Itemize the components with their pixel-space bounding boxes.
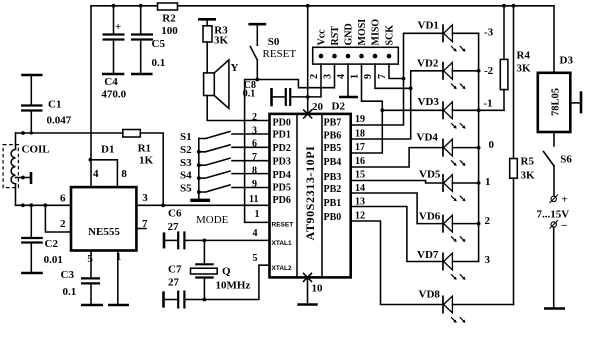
svg-text:5: 5 xyxy=(253,253,258,264)
svg-text:17: 17 xyxy=(355,142,365,153)
wire node A horizontal (coil top / C1 / R1) xyxy=(16,132,123,134)
switch S5 xyxy=(180,183,270,195)
battery minus terminal xyxy=(550,219,568,231)
wire regulator to S6 xyxy=(553,132,555,146)
svg-text:3K: 3K xyxy=(517,63,532,75)
wire reset net: S0 / ISP RST / MCU pin1 xyxy=(245,64,335,222)
svg-text:MISO: MISO xyxy=(371,19,382,46)
speaker Y xyxy=(204,60,239,109)
connector pin contacts xyxy=(319,54,392,59)
svg-text:1K: 1K xyxy=(139,154,154,166)
svg-text:C3: C3 xyxy=(61,269,75,281)
pin 10 marker X and ground xyxy=(297,273,323,304)
wire VD6 anode to chain xyxy=(452,223,478,225)
wire ISP MISO pin 9 to PB6/VD2 net xyxy=(375,64,411,88)
power terminal above S0 xyxy=(248,23,266,26)
svg-text:VD8: VD8 xyxy=(419,289,441,301)
svg-text:4: 4 xyxy=(253,228,258,239)
LED VD3 xyxy=(418,96,466,129)
svg-text:S0: S0 xyxy=(268,36,280,48)
svg-text:R2: R2 xyxy=(162,13,176,25)
svg-text:AT90S2313-10PI: AT90S2313-10PI xyxy=(303,146,317,241)
svg-text:MODE: MODE xyxy=(196,214,229,226)
svg-text:S5: S5 xyxy=(180,183,192,195)
wire crystal/C7 to XTAL2 MCU pin 5 xyxy=(204,265,269,299)
svg-text:VD4: VD4 xyxy=(417,132,439,144)
svg-text:1: 1 xyxy=(350,74,361,79)
wire VD1 anode to chain xyxy=(452,32,478,34)
svg-text:C5: C5 xyxy=(152,38,166,50)
svg-text:10: 10 xyxy=(312,283,324,295)
svg-text:16: 16 xyxy=(355,156,365,167)
svg-text:S4: S4 xyxy=(180,170,192,182)
svg-text:-3: -3 xyxy=(484,27,494,39)
svg-text:12: 12 xyxy=(355,210,365,221)
wire VD8 anode to R5 xyxy=(452,304,513,306)
svg-text:C7: C7 xyxy=(168,264,182,276)
resistor R2 xyxy=(158,3,179,37)
svg-text:PD3: PD3 xyxy=(273,156,291,167)
resistor R3 3K xyxy=(203,19,229,73)
svg-text:PD6: PD6 xyxy=(273,195,291,206)
wire PB4 pin 16 to VD4 xyxy=(351,148,443,167)
switch S4 xyxy=(180,170,270,182)
svg-text:3: 3 xyxy=(142,192,148,204)
svg-text:-1: -1 xyxy=(484,98,493,110)
svg-text:3: 3 xyxy=(252,125,257,136)
capacitor C1 0.047 with top terminal xyxy=(21,75,72,133)
wire top supply rail xyxy=(91,5,554,7)
svg-text:2: 2 xyxy=(252,112,257,123)
svg-text:78L05: 78L05 xyxy=(551,88,562,116)
ground ISP GND pin 4 xyxy=(339,64,358,97)
timer U1 NE555 xyxy=(71,187,136,250)
node junction crystal/C7 xyxy=(203,298,207,302)
wire PB1 pin 13 to VD7 xyxy=(351,207,443,262)
svg-text:0.1: 0.1 xyxy=(63,286,77,298)
coil tap terminal xyxy=(16,172,32,184)
svg-text:R5: R5 xyxy=(521,156,535,168)
node junction crystal/C6/XTAL1 xyxy=(203,239,207,243)
svg-text:+: + xyxy=(115,21,121,33)
svg-text:PD4: PD4 xyxy=(273,170,291,181)
svg-text:C4: C4 xyxy=(104,76,118,88)
wire rail to regulator D3 xyxy=(553,6,555,73)
svg-text:6: 6 xyxy=(252,139,257,150)
svg-text:0.01: 0.01 xyxy=(44,254,63,266)
svg-text:0.1: 0.1 xyxy=(152,57,166,69)
svg-text:PB7: PB7 xyxy=(324,117,342,128)
svg-text:D2: D2 xyxy=(332,101,346,113)
svg-text:GND: GND xyxy=(344,23,355,45)
svg-text:11: 11 xyxy=(249,194,258,205)
ground tab of 78L05 xyxy=(570,91,581,113)
svg-text:1: 1 xyxy=(485,176,491,188)
capacitor C4 470.0 xyxy=(101,6,126,101)
svg-text:VD7: VD7 xyxy=(417,249,439,261)
svg-text:D3: D3 xyxy=(560,55,574,67)
svg-text:18: 18 xyxy=(355,128,365,139)
svg-text:Vcc: Vcc xyxy=(317,29,328,46)
svg-text:PB0: PB0 xyxy=(324,212,342,223)
node junction R5 on rail xyxy=(512,4,516,8)
svg-text:VD5: VD5 xyxy=(419,169,441,181)
svg-text:2: 2 xyxy=(60,218,66,230)
resistor R1 1K xyxy=(123,130,163,206)
svg-text:VD6: VD6 xyxy=(419,211,441,223)
svg-text:D1: D1 xyxy=(101,143,114,155)
svg-text:9: 9 xyxy=(363,74,374,79)
wire speaker to MCU pin 2 (PD0) xyxy=(207,96,269,121)
svg-text:MOSI: MOSI xyxy=(357,19,368,46)
svg-text:8: 8 xyxy=(252,165,257,176)
node junction C8/Vcc xyxy=(306,95,310,99)
svg-text:0: 0 xyxy=(489,139,495,151)
wire NE555 pin 2 branch xyxy=(45,205,71,232)
svg-text:XTAL2: XTAL2 xyxy=(272,265,292,272)
svg-text:20: 20 xyxy=(312,101,324,113)
node dot C1 junction xyxy=(30,131,33,134)
node junction C4 on rail xyxy=(112,4,116,8)
pin 20 marker X xyxy=(304,101,324,118)
switch S3 xyxy=(180,157,270,169)
svg-text:7: 7 xyxy=(377,74,388,79)
crystal Q 10MHz xyxy=(191,240,251,299)
wire pins 4 and 8 jumper of NE555 xyxy=(89,158,128,187)
wire PB2 pin 14 to VD6 xyxy=(351,193,443,224)
resistor R4 3K xyxy=(500,6,531,111)
capacitor C5 0.1 xyxy=(131,6,165,74)
svg-text:470.0: 470.0 xyxy=(101,89,126,101)
svg-text:RESET: RESET xyxy=(272,222,294,229)
svg-text:6: 6 xyxy=(60,192,66,204)
svg-text:+: + xyxy=(562,194,568,206)
svg-text:PD1: PD1 xyxy=(273,129,291,140)
svg-text:7: 7 xyxy=(252,152,257,163)
LED VD7 xyxy=(417,249,466,280)
capacitor C3 0.1 on NE555 pin 5 xyxy=(61,251,104,306)
svg-text:8: 8 xyxy=(121,168,127,180)
svg-text:27: 27 xyxy=(168,277,180,289)
svg-text:PD0: PD0 xyxy=(273,117,291,128)
svg-text:SCK: SCK xyxy=(385,25,396,46)
ground NE555 pin 1 xyxy=(108,251,129,306)
wire ISP MOSI pin 1 to PB5/VD3 net xyxy=(362,64,383,110)
LED VD5 xyxy=(419,169,466,202)
wire node B horizontal (coil bottom / pin6 of NE555) xyxy=(16,204,72,206)
svg-text:PB3: PB3 xyxy=(324,172,342,183)
wire left supply vertical to NE555 pins 4/8 xyxy=(90,6,92,187)
svg-text:PD2: PD2 xyxy=(273,143,291,154)
svg-text:RESET: RESET xyxy=(263,48,297,60)
ground terminal for C7 xyxy=(162,291,165,307)
svg-text:-2: -2 xyxy=(484,65,494,77)
svg-text:Q: Q xyxy=(222,265,231,277)
MCU U2 AT90S2313-10PI xyxy=(270,114,351,278)
svg-text:27: 27 xyxy=(168,221,180,233)
node dot on wire A xyxy=(21,131,25,135)
capacitor C2 0.01 xyxy=(21,205,63,273)
node junction R4 on rail xyxy=(502,4,506,8)
svg-text:0.1: 0.1 xyxy=(243,89,256,100)
svg-text:15: 15 xyxy=(355,170,365,181)
svg-text:–: – xyxy=(561,219,568,231)
svg-text:100: 100 xyxy=(161,25,178,37)
svg-text:NE555: NE555 xyxy=(88,226,120,238)
svg-text:2: 2 xyxy=(485,215,491,227)
battery plus terminal xyxy=(550,194,568,206)
ground terminal for C6 xyxy=(163,232,166,248)
wire XTAL1 to MCU pin 4 xyxy=(204,239,269,241)
wire Vcc vertical from rail to MCU pin 20 xyxy=(306,4,310,114)
svg-text:3: 3 xyxy=(485,254,491,266)
wire PB7 pin 19 to VD1 / SCK xyxy=(351,33,443,125)
svg-text:4: 4 xyxy=(93,168,99,180)
svg-text:9: 9 xyxy=(252,179,257,190)
svg-text:VD3: VD3 xyxy=(418,96,440,108)
wire VD2 anode to chain xyxy=(452,70,478,72)
node dots on wire B xyxy=(21,203,25,207)
svg-text:2: 2 xyxy=(309,74,320,79)
resistor R5 3K xyxy=(510,6,535,305)
node junction R1/C6 vertical on pin3 wire xyxy=(161,203,165,207)
LED VD6 xyxy=(419,211,466,242)
svg-text:PB4: PB4 xyxy=(324,157,342,168)
LED VD1 xyxy=(418,20,466,52)
switch S1 xyxy=(180,131,270,143)
svg-text:XTAL1: XTAL1 xyxy=(272,240,292,247)
svg-text:PD5: PD5 xyxy=(273,182,291,193)
wire VD4 anode to chain xyxy=(452,147,478,149)
svg-text:COIL: COIL xyxy=(22,144,50,156)
switch S2 xyxy=(180,144,270,156)
svg-text:19: 19 xyxy=(355,114,365,125)
wire VD5 anode to chain xyxy=(452,182,478,184)
svg-text:VD1: VD1 xyxy=(418,20,439,32)
LED VD8 xyxy=(419,289,466,323)
search coil L1 (shielded) xyxy=(3,133,50,205)
svg-text:4: 4 xyxy=(336,74,347,79)
svg-text:C1: C1 xyxy=(48,99,61,111)
svg-text:10MHz: 10MHz xyxy=(216,280,251,292)
wire PB3 pin 15 to VD5 xyxy=(351,181,443,184)
svg-text:VD2: VD2 xyxy=(417,58,439,70)
svg-text:3K: 3K xyxy=(214,34,229,46)
LED VD2 xyxy=(417,58,466,90)
svg-text:S2: S2 xyxy=(180,144,192,156)
svg-text:PB1: PB1 xyxy=(324,198,342,209)
svg-text:S6: S6 xyxy=(560,154,572,166)
svg-text:S3: S3 xyxy=(180,157,192,169)
connector X1 ISP header xyxy=(313,47,399,64)
svg-text:R4: R4 xyxy=(517,50,531,62)
capacitor C6 27 xyxy=(165,207,204,249)
capacitor C7 27 xyxy=(165,264,205,309)
svg-text:PB2: PB2 xyxy=(324,184,342,195)
wire VD3 anode to chain and R4 xyxy=(452,109,504,111)
svg-text:C6: C6 xyxy=(168,207,182,219)
wire LED anode chain vertical xyxy=(477,33,481,261)
svg-text:S1: S1 xyxy=(180,131,192,143)
wire NE555 pin 7 stub xyxy=(136,228,146,230)
svg-text:RST: RST xyxy=(330,26,341,46)
svg-text:C2: C2 xyxy=(45,238,59,250)
wire NE555 pin 3 output to MCU pin 11 (PD6) xyxy=(136,204,269,206)
LED VD4 xyxy=(417,132,466,167)
regulator D3 78L05 xyxy=(538,55,574,133)
wire PB0 pin 12 to VD8 xyxy=(351,221,443,305)
node junction C5 on rail xyxy=(139,4,143,8)
svg-text:3: 3 xyxy=(323,74,334,79)
svg-text:R1: R1 xyxy=(138,143,151,155)
wire PB6 pin 18 to VD2 / MISO xyxy=(351,71,443,139)
wire PB5 pin 17 to VD3 / MOSI xyxy=(351,108,443,153)
svg-text:Y: Y xyxy=(231,62,239,74)
switch bus (MODE switches common) xyxy=(197,139,201,200)
svg-text:PB6: PB6 xyxy=(324,130,342,141)
capacitor C8 0.1 with ground terminal xyxy=(243,80,308,106)
svg-text:PB5: PB5 xyxy=(324,143,342,154)
ground bus terminal xyxy=(190,199,210,202)
wire VD7 anode to chain xyxy=(452,261,478,263)
wire ISP Vcc pin 2 to Vcc line xyxy=(308,64,321,97)
wire ISP SCK pin 7 to PB7/VD1 net xyxy=(389,64,404,78)
switch S0 RESET xyxy=(250,24,296,79)
svg-text:0.047: 0.047 xyxy=(47,115,72,127)
switch S6 xyxy=(544,152,573,196)
power terminal above R3 xyxy=(198,18,216,21)
ground battery negative xyxy=(544,227,565,308)
svg-text:3K: 3K xyxy=(521,170,536,182)
svg-text:1: 1 xyxy=(255,209,260,220)
